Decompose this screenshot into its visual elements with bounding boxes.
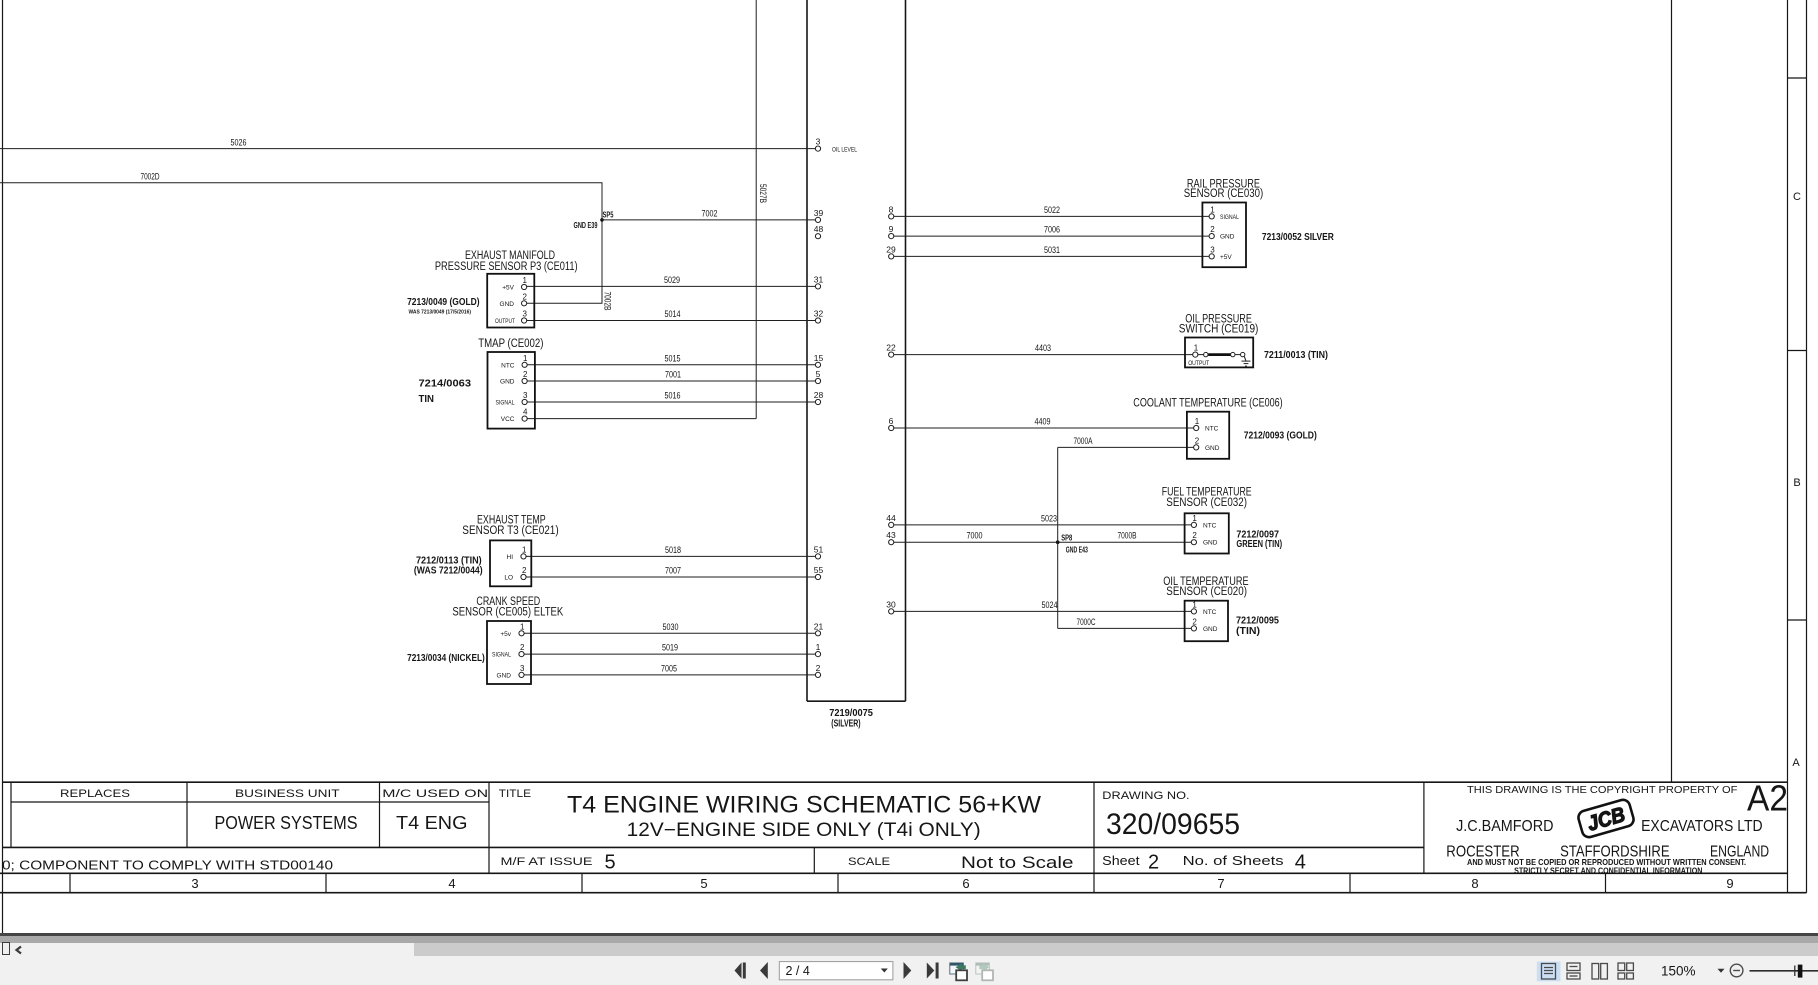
svg-text:GND: GND bbox=[1220, 234, 1235, 241]
svg-text:32: 32 bbox=[814, 309, 824, 319]
pin 28 bbox=[815, 399, 820, 404]
svg-text:5: 5 bbox=[816, 369, 821, 379]
svg-text:1: 1 bbox=[523, 354, 528, 363]
svg-text:12V−ENGINE SIDE ONLY (T4i: 12V−ENGINE SIDE ONLY (T4i ONLY) bbox=[627, 820, 981, 841]
connector CE002 TMAP sensor bbox=[488, 352, 535, 429]
svg-text:3: 3 bbox=[191, 876, 198, 891]
svg-text:30: 30 bbox=[886, 599, 896, 609]
svg-text:COOLANT TEMPERATURE (CE006): COOLANT TEMPERATURE (CE006) bbox=[1133, 398, 1283, 410]
svg-text:SIGNAL: SIGNAL bbox=[496, 400, 515, 407]
wire 7000A bbox=[1058, 446, 1194, 448]
svg-text:320/09655: 320/09655 bbox=[1106, 808, 1240, 841]
svg-text:THIS DRAWING IS THE COPYRI: THIS DRAWING IS THE COPYRIGHT PROPERTY O… bbox=[1467, 785, 1737, 796]
svg-text:2: 2 bbox=[520, 643, 525, 652]
title block top border bbox=[2, 781, 1788, 783]
svg-text:POWER SYSTEMS: POWER SYSTEMS bbox=[215, 813, 358, 833]
svg-text:SP8: SP8 bbox=[1061, 533, 1072, 542]
svg-text:DRAWING NO.: DRAWING NO. bbox=[1102, 790, 1189, 802]
svg-text:8: 8 bbox=[889, 204, 894, 214]
connector CE011 exhaust manifold pressure sensor P3 bbox=[487, 274, 534, 328]
svg-text:GND: GND bbox=[1205, 445, 1220, 452]
svg-text:4: 4 bbox=[448, 876, 455, 891]
wire 7002 (SP5 to pin 39) bbox=[602, 219, 815, 221]
svg-text:SENSOR (CE032): SENSOR (CE032) bbox=[1166, 497, 1247, 509]
svg-text:48: 48 bbox=[814, 224, 824, 234]
switch CE019 oil pressure switch bbox=[1185, 338, 1253, 368]
svg-text:1: 1 bbox=[520, 622, 525, 631]
pin 48 bbox=[815, 234, 820, 239]
svg-text:5023: 5023 bbox=[1041, 513, 1057, 523]
svg-text:J.C.BAMFORD: J.C.BAMFORD bbox=[1456, 818, 1553, 835]
svg-text:150%: 150% bbox=[1661, 964, 1696, 979]
svg-text:5019: 5019 bbox=[662, 643, 678, 653]
svg-text:EXCAVATORS LTD: EXCAVATORS LTD bbox=[1641, 818, 1763, 835]
svg-text:28: 28 bbox=[814, 390, 824, 400]
wire 7001 bbox=[527, 380, 815, 382]
svg-text:9: 9 bbox=[889, 224, 894, 234]
svg-text:GND: GND bbox=[500, 301, 515, 308]
pin 3 bbox=[815, 146, 820, 151]
ruler divider x838 bbox=[837, 873, 839, 892]
pin 15 bbox=[815, 362, 820, 367]
svg-text:SENSOR (CE005) ELTEK: SENSOR (CE005) ELTEK bbox=[452, 606, 563, 618]
pin 44 bbox=[889, 522, 894, 527]
svg-text:44: 44 bbox=[886, 513, 896, 523]
svg-text:SCALE: SCALE bbox=[848, 856, 890, 868]
svg-text:4: 4 bbox=[1295, 852, 1306, 874]
svg-text:5018: 5018 bbox=[665, 545, 681, 555]
svg-text:M/C USED ON: M/C USED ON bbox=[382, 788, 488, 800]
ECU connector block bottom edge bbox=[807, 700, 906, 702]
connector CE005 crank speed sensor bbox=[487, 621, 531, 684]
wire 7000C bbox=[1058, 627, 1192, 629]
pin 32 bbox=[815, 318, 820, 323]
svg-text:4: 4 bbox=[523, 408, 528, 417]
svg-text:2: 2 bbox=[1148, 852, 1159, 874]
title block vertical x1094 bbox=[1093, 782, 1095, 873]
svg-text:3: 3 bbox=[523, 310, 528, 319]
pin 55 bbox=[815, 574, 820, 579]
svg-text:2: 2 bbox=[1192, 617, 1197, 626]
svg-text:REPLACES: REPLACES bbox=[60, 788, 130, 800]
svg-text:7000A: 7000A bbox=[1074, 436, 1093, 446]
wire 5019 bbox=[524, 653, 815, 655]
svg-text:GND: GND bbox=[500, 379, 515, 386]
wire 7002D (to SP5 / P3 GND) bbox=[0, 183, 602, 303]
svg-text:NTC: NTC bbox=[1203, 609, 1217, 616]
svg-text:SP5: SP5 bbox=[603, 211, 614, 220]
svg-text:39: 39 bbox=[814, 208, 824, 218]
ruler divider x70 bbox=[69, 873, 71, 892]
pin 29 bbox=[889, 254, 894, 259]
svg-text:1: 1 bbox=[523, 276, 528, 285]
ruler divider x1605 bbox=[1605, 873, 1607, 892]
svg-text:15: 15 bbox=[814, 353, 824, 363]
title block vertical x489 bbox=[488, 782, 490, 873]
wire 4403 bbox=[894, 354, 1193, 356]
wire 5018 bbox=[526, 555, 815, 557]
svg-text:0; COMPONENT TO COMPLY WIT: 0; COMPONENT TO COMPLY WITH STD00140 bbox=[2, 858, 333, 873]
svg-text:SWITCH (CE019): SWITCH (CE019) bbox=[1179, 324, 1259, 336]
svg-text:1: 1 bbox=[816, 642, 821, 652]
svg-text:7213/0049 (GOLD): 7213/0049 (GOLD) bbox=[407, 296, 480, 308]
row tick A bbox=[1788, 619, 1807, 621]
junction SP8 bbox=[1056, 540, 1060, 544]
pin 30 bbox=[889, 609, 894, 614]
pin 21 bbox=[815, 631, 820, 636]
pin 43 bbox=[889, 540, 894, 545]
svg-text:GREEN (TIN): GREEN (TIN) bbox=[1236, 538, 1282, 550]
svg-text:7212/0093 (GOLD): 7212/0093 (GOLD) bbox=[1244, 429, 1317, 441]
svg-text:1: 1 bbox=[1195, 417, 1200, 426]
title block vertical x187 bbox=[186, 782, 188, 847]
svg-text:OUTPUT: OUTPUT bbox=[1188, 360, 1209, 367]
svg-text:2: 2 bbox=[1195, 436, 1200, 445]
svg-text:+5V: +5V bbox=[502, 285, 514, 292]
svg-text:7: 7 bbox=[1217, 876, 1224, 891]
svg-text:7213/0052 SILVER: 7213/0052 SILVER bbox=[1262, 231, 1334, 243]
svg-text:Sheet: Sheet bbox=[1102, 853, 1140, 868]
svg-text:+5V: +5V bbox=[1220, 254, 1232, 261]
svg-text:1: 1 bbox=[522, 545, 527, 554]
svg-text:2: 2 bbox=[523, 370, 528, 379]
ECU connector block right edge bbox=[905, 0, 907, 701]
svg-text:2 / 4: 2 / 4 bbox=[786, 964, 810, 978]
svg-text:A2: A2 bbox=[1747, 778, 1788, 819]
svg-text:4409: 4409 bbox=[1035, 417, 1051, 427]
connector CE020 oil temperature sensor bbox=[1185, 600, 1228, 641]
wire 5016 bbox=[527, 401, 815, 403]
svg-text:9: 9 bbox=[1726, 876, 1733, 891]
svg-text:GND: GND bbox=[1203, 540, 1218, 547]
svg-text:No. of Sheets: No. of Sheets bbox=[1183, 853, 1285, 868]
wire 7006 bbox=[894, 235, 1209, 237]
row tick B bbox=[1788, 350, 1807, 352]
wire 5027B (vertical net) bbox=[755, 0, 757, 419]
svg-text:7000C: 7000C bbox=[1077, 617, 1096, 627]
title block vertical x11 bbox=[10, 782, 12, 847]
svg-text:8: 8 bbox=[1471, 876, 1478, 891]
svg-text:7007: 7007 bbox=[665, 566, 681, 576]
svg-text:NTC: NTC bbox=[1203, 522, 1217, 529]
ruler divider x582 bbox=[581, 873, 583, 892]
connector CE032 fuel temperature sensor bbox=[1185, 513, 1229, 553]
wire 5024 bbox=[894, 610, 1192, 612]
wire 7000 / 7000B bbox=[894, 541, 1192, 543]
svg-text:5026: 5026 bbox=[231, 138, 247, 148]
ruler divider x1094 bbox=[1093, 873, 1095, 892]
svg-text:5024: 5024 bbox=[1042, 600, 1058, 610]
svg-text:7214/0063: 7214/0063 bbox=[419, 378, 472, 390]
pin 6 bbox=[889, 425, 894, 430]
svg-text:5029: 5029 bbox=[664, 275, 680, 285]
pin 8 bbox=[889, 214, 894, 219]
sheet bottom border bbox=[0, 892, 1807, 894]
title block row3 underline / ruler top bbox=[0, 872, 1788, 874]
svg-text:GND E39: GND E39 bbox=[574, 221, 598, 230]
svg-text:7002D: 7002D bbox=[141, 171, 160, 181]
title block row2 underline bbox=[2, 846, 1424, 848]
svg-text:B: B bbox=[1793, 477, 1800, 489]
svg-text:TIN: TIN bbox=[419, 393, 435, 405]
pin 31 bbox=[815, 284, 820, 289]
svg-text:51: 51 bbox=[814, 544, 824, 554]
svg-text:21: 21 bbox=[814, 621, 824, 631]
wire 5030 bbox=[524, 632, 815, 634]
svg-text:TMAP (CE002): TMAP (CE002) bbox=[478, 338, 543, 350]
svg-text:OIL LEVEL: OIL LEVEL bbox=[832, 147, 857, 154]
JCB logo bbox=[1577, 798, 1635, 839]
svg-text:GND: GND bbox=[1203, 626, 1218, 633]
svg-text:3: 3 bbox=[1210, 245, 1215, 254]
svg-text:HI: HI bbox=[507, 554, 514, 561]
row-letter column left line bbox=[1787, 0, 1789, 893]
svg-text:7213/0034 (NICKEL): 7213/0034 (NICKEL) bbox=[407, 652, 485, 664]
svg-text:BUSINESS UNIT: BUSINESS UNIT bbox=[235, 788, 340, 800]
svg-text:6: 6 bbox=[889, 416, 894, 426]
svg-text:(WAS 7212/0044): (WAS 7212/0044) bbox=[414, 565, 483, 577]
wire ground net vertical (7000A/B/C) bbox=[1057, 447, 1059, 628]
svg-text:+5v: +5v bbox=[500, 631, 511, 638]
svg-text:7002B: 7002B bbox=[602, 292, 612, 311]
svg-text:1: 1 bbox=[1192, 600, 1197, 609]
wire 5014 bbox=[527, 320, 816, 322]
svg-text:3: 3 bbox=[523, 391, 528, 400]
svg-text:GND: GND bbox=[497, 672, 512, 679]
svg-text:5: 5 bbox=[605, 852, 616, 874]
wire 5023 bbox=[894, 524, 1192, 526]
wire 5026 (oil level) bbox=[0, 148, 815, 150]
svg-text:3: 3 bbox=[816, 137, 821, 147]
svg-text:SENSOR (CE020): SENSOR (CE020) bbox=[1166, 586, 1247, 598]
wire 5031 bbox=[894, 255, 1209, 257]
svg-text:29: 29 bbox=[886, 244, 896, 254]
pin 2 bbox=[815, 672, 820, 677]
pin 1 bbox=[815, 652, 820, 657]
sheet left border bbox=[2, 0, 4, 935]
svg-text:7000B: 7000B bbox=[1118, 531, 1137, 541]
sheet right inner border bbox=[1671, 0, 1673, 782]
svg-text:A: A bbox=[1792, 757, 1800, 769]
svg-text:1: 1 bbox=[1192, 514, 1197, 523]
svg-text:TITLE: TITLE bbox=[499, 788, 531, 800]
svg-text:5015: 5015 bbox=[665, 353, 681, 363]
svg-text:T4 ENG: T4 ENG bbox=[396, 813, 468, 833]
title block vertical x814 bbox=[813, 847, 815, 873]
svg-text:SIGNAL: SIGNAL bbox=[492, 652, 511, 659]
wire TMAP VCC to 5027B bbox=[527, 418, 756, 420]
svg-text:GND E43: GND E43 bbox=[1066, 546, 1088, 555]
svg-text:5014: 5014 bbox=[665, 309, 681, 319]
svg-text:1: 1 bbox=[1210, 205, 1215, 214]
svg-text:5031: 5031 bbox=[1044, 245, 1060, 255]
svg-text:22: 22 bbox=[886, 343, 896, 353]
svg-text:SIGNAL: SIGNAL bbox=[1220, 214, 1239, 221]
svg-text:5: 5 bbox=[700, 876, 707, 891]
svg-text:5016: 5016 bbox=[665, 391, 681, 401]
svg-text:2: 2 bbox=[1192, 531, 1197, 540]
svg-text:6: 6 bbox=[962, 876, 969, 891]
svg-text:(SILVER): (SILVER) bbox=[831, 717, 860, 729]
svg-text:7006: 7006 bbox=[1044, 225, 1060, 235]
wire 5029 bbox=[527, 285, 816, 287]
svg-text:7211/0013 (TIN): 7211/0013 (TIN) bbox=[1264, 349, 1328, 361]
pin 22 bbox=[889, 352, 894, 357]
svg-text:7005: 7005 bbox=[661, 663, 677, 673]
svg-text:(TIN): (TIN) bbox=[1236, 625, 1260, 637]
svg-text:2: 2 bbox=[522, 566, 527, 575]
connector CE030 rail pressure sensor bbox=[1202, 203, 1246, 268]
svg-text:31: 31 bbox=[814, 274, 824, 284]
row-letter column right line bbox=[1806, 0, 1808, 893]
junction SP5 bbox=[600, 218, 604, 222]
ECU connector block left edge bbox=[806, 0, 808, 701]
svg-text:NTC: NTC bbox=[501, 362, 515, 369]
wire 5015 bbox=[527, 364, 815, 366]
svg-text:OUTPUT: OUTPUT bbox=[495, 318, 515, 325]
svg-text:SENSOR (CE030): SENSOR (CE030) bbox=[1184, 188, 1264, 200]
svg-text:2: 2 bbox=[816, 663, 821, 673]
svg-text:PRESSURE SENSOR P3 (CE011): PRESSURE SENSOR P3 (CE011) bbox=[435, 261, 578, 273]
title block header underline bbox=[11, 801, 489, 803]
title block vertical x1423 copyright cell bbox=[1423, 782, 1425, 873]
svg-text:7000: 7000 bbox=[967, 531, 983, 541]
svg-text:5027B: 5027B bbox=[758, 184, 768, 203]
ruler divider x1350 bbox=[1349, 873, 1351, 892]
svg-text:C: C bbox=[1793, 191, 1801, 203]
svg-text:VCC: VCC bbox=[501, 416, 515, 423]
wire 5022 bbox=[894, 215, 1209, 217]
svg-text:4403: 4403 bbox=[1035, 343, 1051, 353]
connector CE006 coolant temperature sensor bbox=[1187, 412, 1229, 459]
wire 7005 bbox=[524, 674, 815, 676]
svg-text:3: 3 bbox=[520, 664, 525, 673]
svg-text:NTC: NTC bbox=[1205, 426, 1219, 433]
svg-text:5022: 5022 bbox=[1044, 205, 1060, 215]
pin 51 bbox=[815, 554, 820, 559]
pin 5 bbox=[815, 378, 820, 383]
svg-text:LO: LO bbox=[504, 575, 513, 582]
svg-text:2: 2 bbox=[1210, 225, 1215, 234]
pin 39 bbox=[815, 217, 820, 222]
wire 4409 bbox=[894, 427, 1194, 429]
svg-text:STRICTLY SECRET AND CONFIDE: STRICTLY SECRET AND CONFIDENTIAL INFORMA… bbox=[1514, 866, 1702, 876]
svg-text:M/F AT ISSUE: M/F AT ISSUE bbox=[501, 856, 593, 868]
svg-text:7002: 7002 bbox=[702, 208, 718, 218]
title block vertical x379 bbox=[379, 782, 381, 847]
row tick C/B bbox=[1788, 77, 1807, 79]
ruler divider x326 bbox=[325, 873, 327, 892]
wire 7007 bbox=[526, 576, 815, 578]
svg-text:WAS 7213/0049 (17/5/2016): WAS 7213/0049 (17/5/2016) bbox=[409, 309, 472, 315]
svg-text:SENSOR T3 (CE021): SENSOR T3 (CE021) bbox=[462, 525, 559, 537]
svg-text:5030: 5030 bbox=[663, 622, 679, 632]
svg-text:43: 43 bbox=[886, 530, 896, 540]
svg-text:7001: 7001 bbox=[665, 370, 681, 380]
svg-text:2: 2 bbox=[523, 292, 528, 301]
svg-text:Not to Scale: Not to Scale bbox=[961, 853, 1074, 872]
pin 9 bbox=[889, 234, 894, 239]
svg-text:55: 55 bbox=[814, 565, 824, 575]
svg-text:T4 ENGINE WIRING SCHEMATIC: T4 ENGINE WIRING SCHEMATIC 56+KW bbox=[567, 792, 1041, 819]
connector CE021 exhaust temp sensor T3 bbox=[490, 540, 531, 586]
svg-text:1: 1 bbox=[1194, 344, 1199, 353]
